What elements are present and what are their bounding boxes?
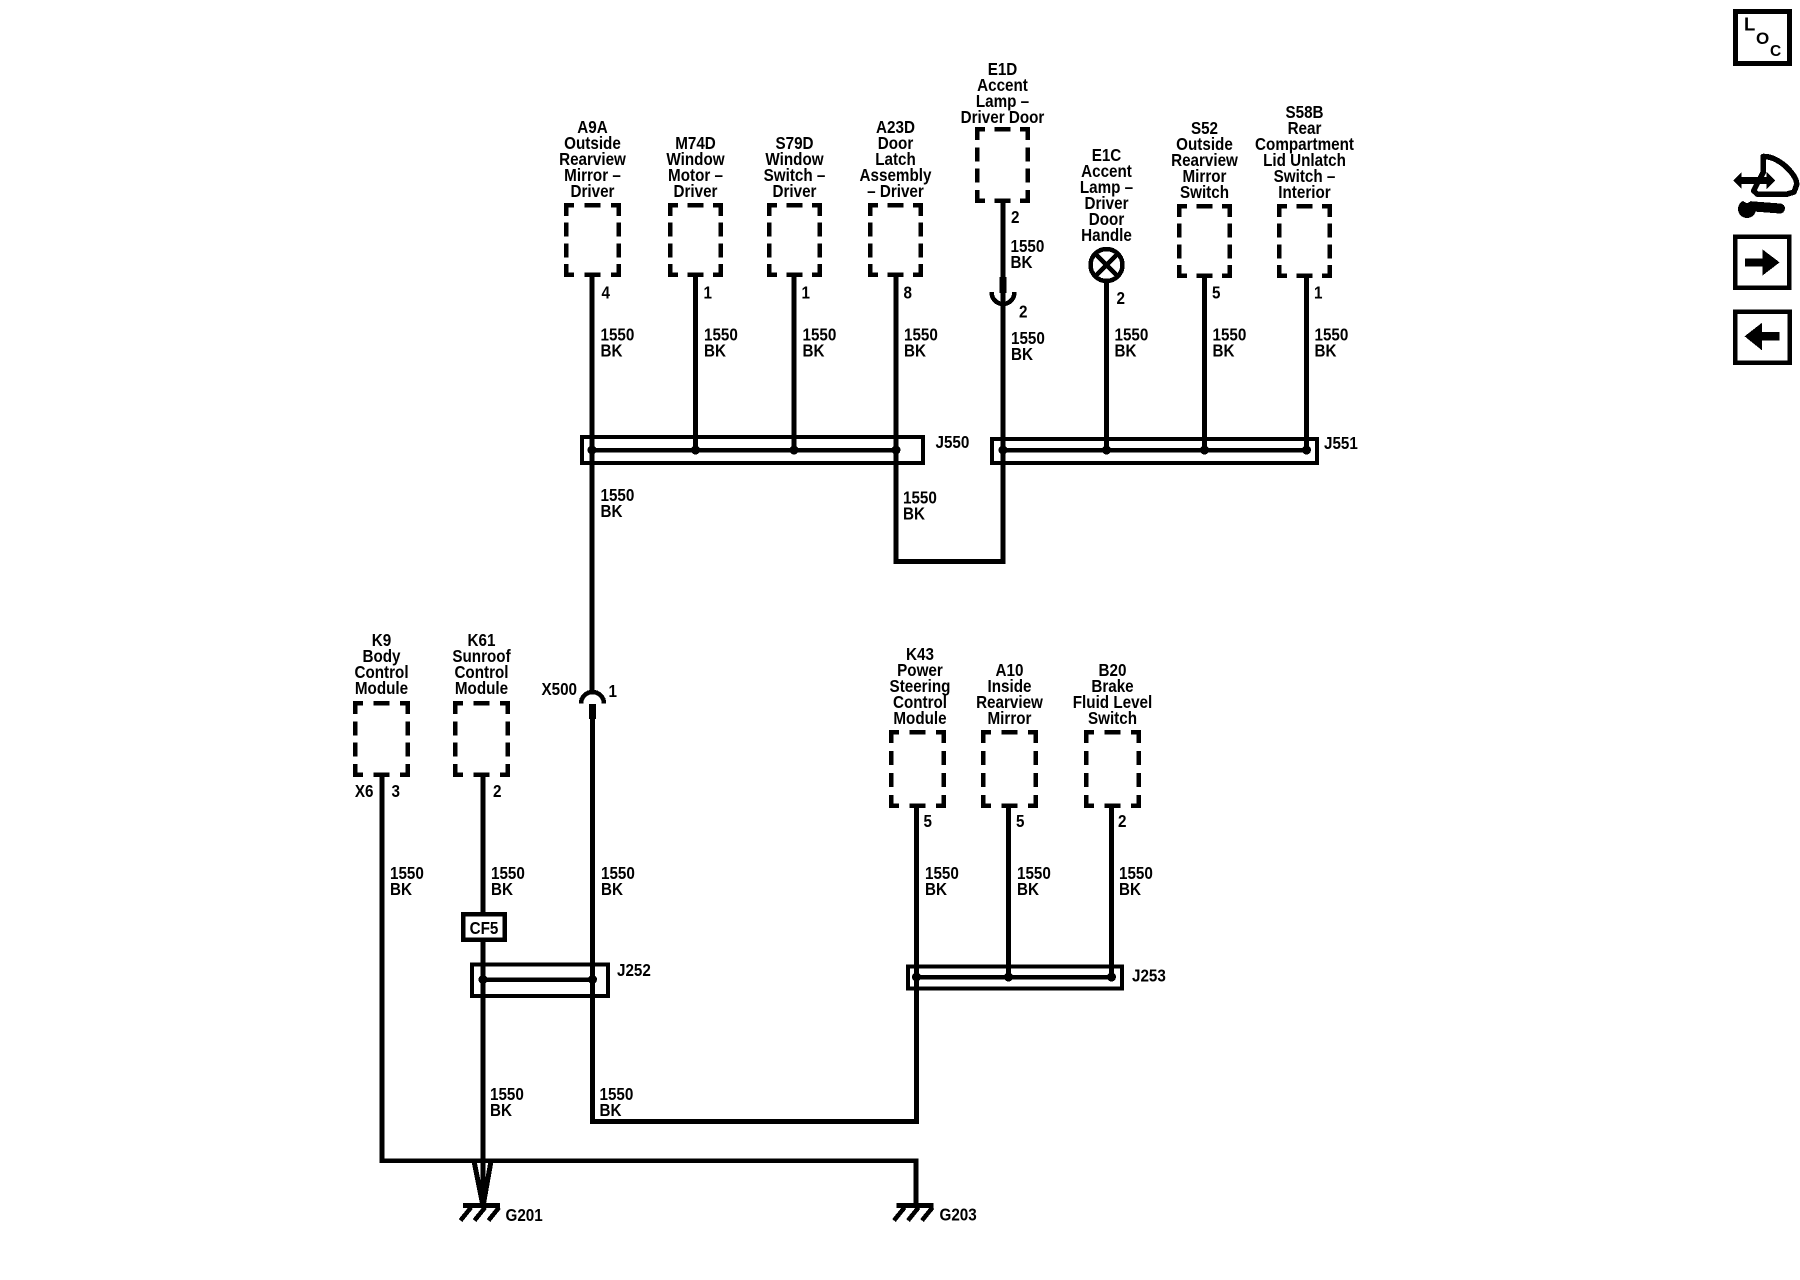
splice pack J252 (box)	[472, 965, 608, 997]
ground symbol G203	[894, 1206, 934, 1221]
pin 2 below inline connector	[1019, 303, 1027, 322]
svg-text:G201: G201	[505, 1206, 542, 1225]
junction dot J551 / E1D	[999, 446, 1008, 455]
svg-text:BK: BK	[599, 1101, 621, 1120]
wire link elbow between J252 branch and J253 branch	[590, 1119, 919, 1124]
svg-text:Module: Module	[355, 679, 408, 698]
wire label 1550 BK (A23D upper)	[904, 326, 938, 361]
svg-text:2: 2	[1116, 289, 1124, 308]
wire S79D pin 1 to J550	[792, 277, 797, 450]
component K43 Power Steering Control Module (dashed connector box)	[889, 645, 950, 808]
wire label 1550 BK (B20)	[1119, 864, 1153, 899]
wire K9 pin 3 down to ground line	[380, 777, 385, 1161]
junction dot J551 / E1C	[1102, 446, 1111, 455]
svg-text:J252: J252	[617, 961, 651, 980]
svg-text:BK: BK	[904, 342, 926, 361]
svg-text:3: 3	[392, 782, 400, 801]
svg-text:8: 8	[904, 284, 912, 303]
svg-text:BK: BK	[1010, 253, 1032, 272]
icon forward arrow box	[1735, 237, 1789, 288]
svg-text:BK: BK	[1119, 880, 1141, 899]
svg-text:Driver: Driver	[674, 182, 719, 201]
wire label 1550 BK (K43)	[925, 864, 959, 899]
svg-text:BK: BK	[1315, 342, 1337, 361]
wire label 1550 BK (E1C)	[1114, 326, 1148, 361]
svg-text:1: 1	[801, 284, 809, 303]
svg-text:1: 1	[703, 284, 711, 303]
component S58B Rear Compartment Lid Unlatch Switch - Interior (dashed connector box)	[1255, 103, 1354, 278]
svg-text:BK: BK	[704, 342, 726, 361]
svg-text:O: O	[1756, 29, 1769, 48]
svg-text:2: 2	[1019, 303, 1027, 322]
wire ground line from K9 to G203	[380, 1158, 919, 1163]
connector X500 terminal tick	[589, 704, 596, 719]
svg-text:Interior: Interior	[1278, 183, 1331, 202]
wire label 1550 BK (link elbow)	[599, 1085, 633, 1120]
component B20 Brake Fluid Level Switch (dashed connector box)	[1073, 661, 1152, 808]
pin 1 of X500	[609, 682, 617, 701]
component S79D Window Switch - Driver (dashed connector box)	[764, 134, 826, 277]
pin label X6 of K9	[355, 782, 374, 801]
wire CF5 through J252 down to ground G201	[481, 942, 486, 1203]
wire M74D pin 1 to J550	[693, 277, 698, 450]
wire elbow connecting J550 branch and J551 branch	[894, 559, 1006, 564]
pin 1 of M74D	[703, 284, 711, 303]
svg-text:BK: BK	[1114, 342, 1136, 361]
pin 4 of A9A	[602, 284, 611, 303]
pin 1 of S79D	[801, 284, 809, 303]
junction dot J550 / S79D	[790, 446, 799, 455]
svg-text:4: 4	[602, 284, 611, 303]
svg-text:X500: X500	[541, 680, 577, 699]
pin 5 of K43	[923, 812, 931, 831]
component A10 Inside Rearview Mirror (dashed connector box)	[976, 661, 1043, 808]
wire K61 pin 2 to fuse CF5	[481, 777, 486, 912]
splice bus J550	[592, 448, 896, 453]
wire A23D pin 8 through J550 down to elbow	[894, 277, 899, 562]
wire label 1550 BK (S79D)	[802, 326, 836, 361]
wire label 1550 BK (E1D lower)	[1011, 329, 1045, 364]
svg-text:BK: BK	[491, 880, 513, 899]
wire label 1550 BK (X500 to J252)	[601, 864, 635, 899]
wire label 1550 BK (A10)	[1017, 864, 1051, 899]
wire E1C pin 2 to J551	[1104, 281, 1109, 450]
lamp E1C Accent Lamp - Driver Door Handle (circle with X)	[1080, 146, 1133, 281]
svg-text:BK: BK	[390, 880, 412, 899]
pin 5 of S52	[1212, 284, 1220, 303]
wire label 1550 BK (J550 to X500)	[601, 486, 635, 521]
svg-text:BK: BK	[1213, 342, 1235, 361]
label J551	[1324, 434, 1358, 453]
pin 3 of K9	[392, 782, 400, 801]
label X500	[541, 680, 577, 699]
wire label 1550 BK (S58B)	[1315, 326, 1349, 361]
icon back arrow box	[1735, 312, 1790, 363]
label J252	[617, 961, 651, 980]
svg-text:BK: BK	[601, 342, 623, 361]
svg-text:J253: J253	[1132, 967, 1166, 986]
splice bus J253	[917, 975, 1112, 980]
wire inline connector through J551 down to elbow	[1001, 293, 1006, 562]
svg-text:CF5: CF5	[470, 919, 499, 938]
svg-text:BK: BK	[925, 880, 947, 899]
svg-text:5: 5	[1016, 812, 1024, 831]
splice pack J550 (box)	[582, 437, 923, 463]
svg-text:C: C	[1770, 43, 1781, 60]
inline connector terminal tick (E1D side)	[1000, 277, 1007, 293]
junction dot J551 / S52	[1200, 446, 1209, 455]
label G201	[505, 1206, 542, 1225]
svg-text:1: 1	[609, 682, 617, 701]
svg-text:5: 5	[1212, 284, 1220, 303]
pin 2 of E1C	[1116, 289, 1124, 308]
connector X500 cap arc	[581, 692, 604, 703]
svg-text:L: L	[1744, 14, 1755, 35]
wire J550 to connector X500	[590, 450, 595, 692]
wire label 1550 BK (K9)	[390, 864, 424, 899]
svg-text:X6: X6	[355, 782, 374, 801]
component K9 Body Control Module (dashed connector box)	[353, 631, 410, 777]
junction dot J253 / A10 wire	[1004, 973, 1013, 982]
svg-text:2: 2	[493, 782, 501, 801]
svg-text:J550: J550	[936, 433, 970, 452]
svg-text:BK: BK	[490, 1101, 512, 1120]
svg-text:Module: Module	[893, 709, 946, 728]
svg-text:Driver Door: Driver Door	[961, 108, 1045, 127]
ground symbol G201	[461, 1206, 501, 1221]
svg-text:Switch: Switch	[1180, 183, 1229, 202]
wire A9A pin 4 to J550	[590, 277, 595, 450]
pin 2 of K61	[493, 782, 501, 801]
svg-text:Module: Module	[455, 679, 508, 698]
svg-text:BK: BK	[601, 502, 623, 521]
svg-text:BK: BK	[601, 880, 623, 899]
svg-text:J551: J551	[1324, 434, 1358, 453]
wire label 1550 BK (E1D upper)	[1010, 237, 1044, 272]
wire drop to ground G203	[914, 1159, 919, 1204]
component A23D Door Latch Assembly - Driver (dashed connector box)	[860, 118, 933, 277]
svg-text:Driver: Driver	[773, 182, 818, 201]
svg-text:BK: BK	[1017, 880, 1039, 899]
junction dot J253 / K43 wire	[912, 973, 921, 982]
icon component-location (door outline with double arrow and wrench)	[1733, 156, 1797, 218]
wire A10 pin 5 to J253	[1006, 808, 1011, 977]
svg-text:2: 2	[1011, 208, 1019, 227]
junction dot J550 / M74D	[691, 446, 700, 455]
svg-text:1: 1	[1314, 284, 1322, 303]
label J550	[936, 433, 970, 452]
pin 2 of E1D	[1011, 208, 1019, 227]
wire label 1550 BK (S52)	[1213, 326, 1247, 361]
wire label 1550 BK (K61)	[491, 864, 525, 899]
wire K43 pin 5 through J253 down to link elbow	[914, 808, 919, 1122]
splice bus J252	[483, 977, 593, 982]
svg-text:BK: BK	[903, 505, 925, 524]
label J253	[1132, 967, 1166, 986]
component A9A Outside Rearview Mirror - Driver (dashed connector box)	[559, 118, 626, 277]
component K61 Sunroof Control Module (dashed connector box)	[452, 631, 511, 777]
component M74D Window Motor - Driver (dashed connector box)	[666, 134, 724, 277]
junction dot J550 / A9A	[588, 446, 597, 455]
junction dot J252 / CF5 wire	[479, 975, 488, 984]
svg-text:5: 5	[923, 812, 931, 831]
svg-text:– Driver: – Driver	[867, 182, 924, 201]
splice pack J551 (box)	[992, 439, 1317, 463]
wire B20 pin 2 to J253	[1109, 808, 1114, 977]
svg-text:Switch: Switch	[1088, 709, 1137, 728]
splice bus J551	[1003, 448, 1307, 453]
junction dot J551 / S58B	[1302, 446, 1311, 455]
wire label 1550 BK (A9A)	[601, 326, 635, 361]
wire label 1550 BK (M74D)	[704, 326, 738, 361]
svg-text:Mirror: Mirror	[988, 709, 1033, 728]
svg-text:G203: G203	[940, 1206, 977, 1225]
wire S58B pin 1 to J551	[1304, 278, 1309, 450]
inline connector socket arc (cup)	[992, 292, 1015, 304]
wire label 1550 BK (A23D lower, below J550)	[903, 489, 937, 524]
icon LOC box (top right)	[1736, 12, 1790, 64]
svg-text:2: 2	[1118, 812, 1126, 831]
svg-text:Handle: Handle	[1081, 226, 1132, 245]
component S52 Outside Rearview Mirror Switch (dashed connector box)	[1171, 119, 1238, 278]
wire E1D pin 2 to inline connector	[1001, 203, 1006, 277]
pin 2 of B20	[1118, 812, 1126, 831]
arrow into ground G201	[474, 1161, 491, 1204]
pin 8 of A23D	[904, 284, 912, 303]
svg-text:BK: BK	[1011, 345, 1033, 364]
junction dot J253 / B20 wire	[1107, 973, 1116, 982]
fuse CF5 (box with label)	[463, 914, 505, 940]
component E1D Accent Lamp - Driver Door (dashed connector box)	[961, 60, 1045, 203]
svg-text:BK: BK	[802, 342, 824, 361]
svg-text:Driver: Driver	[571, 182, 616, 201]
wire label 1550 BK (CF5 to G201)	[490, 1085, 524, 1120]
wire S52 pin 5 to J551	[1202, 278, 1207, 450]
label G203	[940, 1206, 977, 1225]
junction dot J252 / X500 wire	[588, 975, 597, 984]
junction dot J550 / A23D	[892, 446, 901, 455]
pin 5 of A10	[1016, 812, 1024, 831]
wire X500 through J252 down to link elbow	[590, 719, 595, 1122]
splice pack J253 (box)	[908, 967, 1122, 989]
pin 1 of S58B	[1314, 284, 1322, 303]
